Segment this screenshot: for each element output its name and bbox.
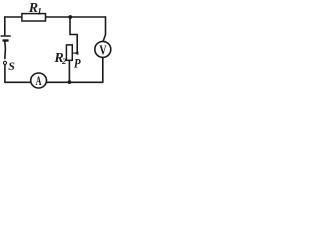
rheostat R2 body bbox=[66, 45, 72, 60]
node junction dot on bottom wire bbox=[68, 80, 72, 84]
wire top-left segment bbox=[5, 16, 22, 18]
switch S contact circle bbox=[3, 61, 6, 64]
wire junction down to slider stem bbox=[70, 17, 77, 52]
wire bottom-left segment bbox=[5, 81, 31, 83]
wire top-middle segment bbox=[46, 16, 106, 18]
svg-text:P: P bbox=[74, 56, 81, 71]
ammeter A bbox=[31, 73, 47, 88]
rheostat slider arrowhead bbox=[74, 51, 79, 55]
battery long plate bbox=[1, 35, 11, 37]
wire switch to bottom-left corner bbox=[4, 65, 6, 83]
svg-text:V: V bbox=[99, 42, 106, 58]
svg-text:2: 2 bbox=[61, 56, 67, 66]
wire right side top with bend to voltmeter bbox=[103, 16, 106, 42]
node junction dot on top wire bbox=[68, 15, 72, 19]
resistor R1 bbox=[22, 14, 46, 21]
wire bottom-middle segment bbox=[46, 81, 103, 83]
wire rheostat bottom lead bbox=[68, 60, 70, 82]
svg-text:A: A bbox=[36, 76, 42, 89]
svg-text:1: 1 bbox=[37, 7, 42, 17]
wire slider arm into rheostat bbox=[72, 52, 75, 54]
wire voltmeter bottom lead bbox=[102, 57, 104, 82]
svg-text:S: S bbox=[8, 59, 15, 73]
wire left side battery top lead bbox=[4, 16, 6, 35]
wire battery to switch bbox=[4, 41, 7, 59]
voltmeter V bbox=[95, 41, 111, 57]
battery short thick plate bbox=[3, 39, 9, 41]
